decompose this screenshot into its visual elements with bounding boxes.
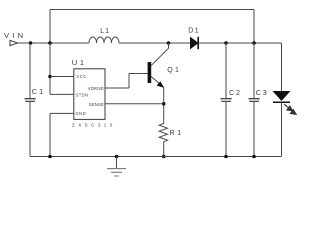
- wire top-rail right riser: [253, 10, 255, 44]
- node C3 bottom junction: [252, 155, 256, 159]
- capacitor C2 plates: [221, 99, 232, 102]
- ground symbol stem: [116, 157, 118, 169]
- port VIN: [10, 40, 18, 45]
- node ground junction: [115, 155, 119, 159]
- wire GND pin riser: [49, 113, 51, 156]
- node VIN junction riser: [48, 41, 52, 45]
- led LED1 cathode bar: [273, 101, 290, 103]
- resistor R1: [159, 124, 167, 142]
- capacitor C2 top lead: [225, 43, 227, 98]
- node U1 gnd junction: [48, 155, 52, 159]
- node C2 bottom junction: [224, 155, 228, 159]
- node C2 top junction: [224, 41, 228, 45]
- wire VCC pin: [50, 76, 74, 78]
- svg-text:VIN: VIN: [4, 31, 26, 40]
- inductor L1: [89, 37, 119, 43]
- svg-text:STDN: STDN: [76, 93, 89, 98]
- wire top-rail left riser: [49, 10, 51, 44]
- diode D1: [191, 38, 198, 49]
- transistor Q1 emitter arrow: [157, 81, 165, 88]
- transistor Q1 collector: [151, 43, 169, 66]
- capacitor C3 top lead: [253, 43, 255, 98]
- diode D1 cathode bar: [197, 37, 199, 49]
- wire emitter down: [163, 88, 165, 124]
- transistor Q1 base bar: [148, 62, 152, 83]
- wire VDRIVE riser: [128, 74, 130, 89]
- led LED1 light arrow 1: [284, 104, 292, 111]
- svg-text:C3: C3: [256, 88, 269, 97]
- svg-text:C2: C2: [229, 88, 242, 97]
- led LED1 triangle: [273, 91, 291, 101]
- svg-text:R1: R1: [170, 128, 184, 137]
- wire U1 feed riser: [49, 43, 51, 94]
- capacitor C1 bottom lead: [29, 102, 31, 157]
- ic U1 box: [74, 69, 105, 120]
- node U1 VCC junction: [48, 75, 52, 79]
- capacitor C1 plates: [25, 99, 36, 102]
- node R1 ground junction: [162, 155, 166, 159]
- wire switch node: [119, 42, 191, 44]
- svg-text:GND: GND: [76, 111, 87, 116]
- node collector junction: [167, 41, 171, 45]
- capacitor C3 plates: [249, 99, 260, 102]
- wire output net: [198, 42, 281, 44]
- ground symbol bars: [107, 169, 126, 176]
- wire R1 bottom lead: [163, 142, 165, 157]
- node VIN junction C1: [29, 41, 33, 45]
- svg-text:SENSE: SENSE: [89, 102, 104, 107]
- capacitor C2 bottom lead: [225, 102, 227, 157]
- svg-text:C1: C1: [32, 87, 46, 96]
- capacitor C1 top lead: [29, 43, 31, 98]
- wire SENSE pin: [105, 103, 164, 105]
- svg-text:U1: U1: [72, 58, 87, 67]
- wire STDN pin: [50, 93, 74, 95]
- svg-text:ZXSC310: ZXSC310: [72, 122, 116, 127]
- wire top rail: [50, 9, 254, 11]
- wire LED bottom lead: [281, 102, 283, 156]
- wire VDRIVE pin: [105, 87, 129, 89]
- node sense junction: [162, 102, 166, 106]
- svg-text:VDRIVE: VDRIVE: [88, 86, 104, 91]
- svg-text:L1: L1: [100, 28, 110, 35]
- wire GND pin: [50, 112, 74, 114]
- svg-text:D1: D1: [188, 28, 200, 35]
- wire LED top lead: [281, 43, 283, 91]
- transistor Q1 emitter: [151, 76, 163, 87]
- wire ground rail: [30, 156, 282, 158]
- led LED1 light arrow 2: [288, 108, 296, 115]
- capacitor C3 bottom lead: [253, 102, 255, 157]
- wire VIN input: [18, 42, 89, 44]
- svg-text:VCC: VCC: [77, 74, 87, 79]
- svg-text:Q1: Q1: [167, 67, 181, 74]
- wire base lead: [129, 73, 148, 75]
- node C3 top junction: [252, 41, 256, 45]
